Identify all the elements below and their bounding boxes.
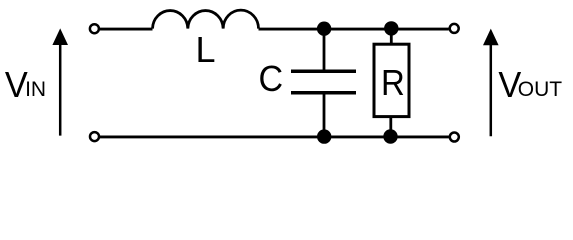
wire top-left (100, 28, 153, 31)
inductor L (153, 10, 259, 28)
junction node top-C (317, 22, 331, 36)
junction node top-R (384, 21, 398, 35)
wire bottom (100, 135, 449, 138)
arrow V_OUT (483, 29, 499, 137)
terminal top-left (90, 24, 99, 33)
svg-text:R: R (381, 62, 405, 103)
junction node bottom-C (317, 129, 331, 143)
svg-text:IN: IN (25, 78, 46, 101)
wire top-middle (259, 28, 392, 31)
terminal bottom-right (450, 133, 459, 142)
terminal bottom-left (90, 132, 99, 141)
junction node bottom-R (383, 129, 397, 143)
label V_IN (5, 64, 46, 105)
svg-text:OUT: OUT (518, 78, 563, 101)
svg-text:C: C (259, 58, 284, 99)
svg-text:L: L (196, 29, 216, 70)
capacitor C (291, 29, 356, 137)
label V_OUT (498, 64, 562, 105)
arrow V_IN (52, 28, 68, 135)
wire top-right (391, 28, 449, 31)
terminal top-right (450, 24, 459, 33)
resistor R (374, 29, 409, 137)
